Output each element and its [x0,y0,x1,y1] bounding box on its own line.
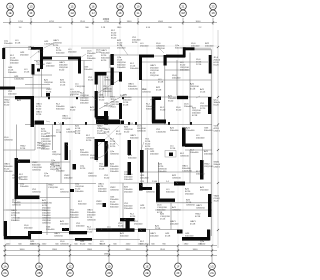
annotation label [46,89,52,94]
grid centerline bottom col 6 [177,47,179,246]
svg-text:C8@150: C8@150 [32,170,41,172]
annotation label [130,214,136,221]
svg-text:200x600: 200x600 [180,70,189,72]
svg-text:3C20: 3C20 [104,178,110,180]
shear wall bottom B6 [69,231,87,234]
annotation label [156,43,165,50]
stair wall S2 [95,72,98,85]
annotation label [80,150,89,157]
svg-text:4C18: 4C18 [156,90,162,92]
top grid tick col 7 [182,18,184,25]
wall line [0,87,50,89]
svg-text:6C20: 6C20 [70,110,76,112]
svg-text:300x500: 300x500 [128,158,137,160]
annotation label [214,126,223,133]
annotation label [19,174,28,181]
annotation label [56,130,62,135]
top grid tick col 4 [92,18,94,25]
svg-text:C10@200: C10@200 [128,89,139,91]
annotation label [196,171,205,176]
svg-text:1C: 1C [68,264,71,268]
top grid bubble col 2 [28,3,35,16]
wall line [96,148,98,162]
annotation label [118,223,124,228]
annotation label [116,131,122,136]
annotation label [70,210,79,220]
bottom grid bubble col 4 [106,263,113,276]
top dimension line [3,22,217,24]
annotation label [44,41,55,46]
annotation label [11,210,20,222]
column M19 [70,189,74,192]
svg-text:C8@150: C8@150 [196,208,205,210]
annotation label [104,175,110,180]
svg-text:6C20: 6C20 [124,132,130,134]
wall line [46,183,48,235]
small dimension text row [6,243,203,245]
top grid bubble col 8 [210,3,217,16]
shear wall left L1 [2,48,5,59]
svg-text:200x600: 200x600 [84,69,93,71]
column M10 [169,153,173,157]
stair wall S7 [95,139,99,160]
shear wall right R1 [209,55,212,74]
stair wall S1 [95,72,107,76]
wall line [164,66,166,125]
svg-text:C10@200: C10@200 [30,244,41,246]
elevator shaft cross [98,126,119,146]
annotation label [46,227,55,232]
svg-text:200x400: 200x400 [130,68,139,70]
wall line [41,69,43,97]
annotation label [90,155,99,160]
wall line [40,197,70,199]
shear wall M7 [140,150,144,173]
shear wall top A1-h [31,47,42,50]
shear wall M9 [185,144,203,147]
annotation label [66,129,77,134]
annotation label [78,201,87,206]
extension line [3,45,217,47]
svg-text:C8@100: C8@100 [12,205,21,207]
svg-text:3C20: 3C20 [59,70,65,72]
svg-text:C8@100: C8@100 [80,155,89,157]
wall line [149,230,151,246]
wall line [42,232,74,234]
wall line [95,84,97,91]
svg-text:C8@150: C8@150 [96,204,105,206]
annotation label [124,187,133,194]
svg-text:300x500: 300x500 [130,138,139,140]
wall line [34,125,36,151]
svg-text:6C20: 6C20 [116,134,122,136]
annotation label [120,232,129,238]
svg-text:C10@200: C10@200 [66,132,77,134]
annotation label [110,164,119,174]
annotation label [104,129,110,134]
svg-text:C8@150: C8@150 [52,154,61,156]
shear wall right R3 [200,160,204,180]
wall line [110,182,211,184]
annotation label [204,164,213,169]
annotation label [184,104,193,109]
annotation label [204,150,213,156]
svg-text:28800: 28800 [104,254,111,256]
shear wall left L2 [0,87,15,90]
wall line [52,125,54,151]
svg-text:2D: 2D [107,271,110,275]
shear wall L3 [32,64,35,75]
annotation label [42,199,53,225]
svg-text:C8@100: C8@100 [172,178,181,180]
svg-text:300x500: 300x500 [204,130,213,132]
svg-text:4C18: 4C18 [190,89,196,91]
grid centerline bottom col 3 [69,47,71,246]
shear wall bottom B8-v [126,218,130,231]
svg-text:200x400: 200x400 [140,244,149,246]
wall line [158,162,160,183]
annotation label [150,151,159,156]
svg-text:300x500: 300x500 [175,48,184,50]
annotation label [46,133,57,138]
svg-text:3C20: 3C20 [96,52,102,54]
annotation label [200,103,209,110]
wall line [141,172,143,183]
svg-text:200x600: 200x600 [46,66,55,68]
wall line [4,149,36,151]
stair flight diagonal 1 [98,80,119,93]
shear wall bottom B9 [138,229,146,232]
grid centerline bottom col 7 [211,47,213,246]
annotation label [60,189,69,194]
annotation label [196,205,205,210]
top grid tick col 3 [71,18,73,25]
svg-text:C8@150: C8@150 [4,140,13,142]
annotation label [24,225,33,230]
annotation label [87,51,96,61]
svg-text:1F: 1F [176,264,179,268]
annotation label [176,107,182,112]
wall line [142,79,211,81]
svg-text:1B: 1B [37,264,40,268]
annotation label [200,186,209,192]
annotation label [130,135,139,140]
svg-text:2C16: 2C16 [56,132,62,134]
svg-text:C10@200: C10@200 [75,86,86,88]
shear wall C7 [35,121,45,125]
annotation label [28,47,37,52]
annotation label [170,146,176,151]
svg-text:C8@100: C8@100 [44,82,53,84]
corridor wall L4-h [15,96,34,99]
annotation label [10,55,19,65]
wall line [134,229,177,231]
shear wall bottom B4 [28,231,42,234]
svg-text:300x500: 300x500 [185,236,194,238]
annotation label [60,80,66,87]
shear wall M6 [104,141,108,167]
annotation label [76,223,85,228]
svg-text:200x400: 200x400 [196,174,205,176]
svg-text:3100: 3100 [160,249,166,251]
shear wall bottom B10 [177,230,183,234]
shear wall top A5 [166,55,185,58]
svg-text:3C20: 3C20 [160,110,166,112]
svg-text:1M: 1M [181,11,185,15]
svg-text:250x600: 250x600 [185,194,194,196]
top grid bubble col 6 [135,3,142,16]
annotation label [132,37,141,44]
svg-text:C8@150: C8@150 [110,154,119,156]
svg-text:2C16: 2C16 [104,132,110,134]
svg-text:200x400: 200x400 [110,171,119,173]
annotation label [36,62,45,67]
svg-text:2C16: 2C16 [20,148,26,150]
svg-text:6C20: 6C20 [36,109,42,111]
annotation label [104,103,113,108]
shear wall bottom B8-cap [120,218,135,221]
shear wall bottom B11 [182,237,209,241]
svg-text:200x400: 200x400 [80,103,89,105]
shear wall top A5b [183,47,195,50]
wall line [16,125,18,159]
wall line [32,74,34,96]
shear wall C3 [177,96,188,99]
grid centerline top col 7 [182,25,184,246]
svg-text:2C16: 2C16 [140,208,146,210]
wall line [141,80,143,150]
svg-text:4C18: 4C18 [158,82,164,84]
svg-text:200x400: 200x400 [158,171,167,173]
svg-text:1E: 1E [145,264,148,268]
svg-text:4700: 4700 [49,21,55,23]
wall line [185,149,212,151]
stair flight diagonal 2 [99,94,126,109]
bottom grid bubble col 7 [209,263,216,276]
annotation label [70,107,76,112]
svg-text:3C20: 3C20 [86,140,92,142]
svg-text:250x600: 250x600 [124,192,133,194]
svg-text:2E: 2E [145,271,148,275]
svg-text:2100: 2100 [80,21,86,23]
annotation label [128,154,137,160]
svg-text:C8@150: C8@150 [110,190,119,192]
svg-text:C8@100: C8@100 [180,156,189,158]
top grid tick col 8 [212,18,214,25]
svg-text:C8@150: C8@150 [172,210,181,212]
svg-text:300x500: 300x500 [56,109,65,111]
shear wall top A4-v [139,55,142,81]
svg-text:1H: 1H [70,11,73,15]
annotation label [75,126,81,136]
svg-text:3400: 3400 [193,249,199,251]
svg-text:C8@100: C8@100 [214,131,221,133]
svg-text:C10@200: C10@200 [156,132,167,134]
annotation label [214,196,225,203]
wall line [34,60,92,62]
wall line [189,150,191,183]
svg-text:3C20: 3C20 [80,168,86,170]
annotation label [170,221,179,226]
annotation label [172,75,181,80]
svg-text:250x600: 250x600 [68,52,77,54]
bottom dimension line 2 [3,250,217,252]
annotation label [192,108,201,118]
annotation label [157,205,168,215]
annotation label [134,221,143,226]
annotation label [50,164,59,171]
shear wall C6 [152,120,166,124]
annotation label [56,166,65,173]
svg-text:C8@100: C8@100 [60,244,69,246]
svg-text:2C16: 2C16 [160,219,166,221]
svg-text:2F: 2F [176,271,179,275]
svg-text:3000: 3000 [196,21,202,23]
annotation label [98,184,107,194]
annotation label [140,43,149,48]
annotation label [190,83,199,91]
annotation label [99,164,108,171]
annotation label [54,233,63,238]
svg-text:300x500: 300x500 [103,91,112,93]
wall line [195,49,212,51]
annotation label [8,67,17,74]
annotation label [204,128,213,133]
svg-text:2C16: 2C16 [107,229,113,231]
annotation label [8,91,17,96]
svg-text:C8@150: C8@150 [146,192,155,194]
wall line [142,61,208,63]
annotation label [99,95,105,102]
svg-text:300x500: 300x500 [166,192,175,194]
svg-text:4C18: 4C18 [195,216,201,218]
annotation label [166,189,175,194]
svg-text:C10@200: C10@200 [46,136,57,138]
svg-text:2C16: 2C16 [196,64,202,66]
annotation label [44,173,50,178]
annotation label [110,151,119,156]
svg-text:300x500: 300x500 [11,220,20,222]
shear wall right R5 [207,230,210,241]
wall line [189,53,191,125]
second top dimension row [19,27,203,29]
annotation label [156,129,167,134]
annotation label [111,97,120,109]
svg-text:200x600: 200x600 [190,152,199,154]
svg-text:2C16: 2C16 [155,228,161,230]
wall line [165,69,190,71]
top grid bubble col 4 [90,3,97,16]
svg-text:6C20: 6C20 [176,110,182,112]
bottom grid tick col 6 [177,246,179,264]
svg-text:200x600: 200x600 [196,138,205,140]
svg-text:200x400: 200x400 [4,171,13,173]
wall line [17,161,71,163]
annotation label [20,52,29,57]
shear wall M12 [156,199,175,202]
annotation label [140,241,149,246]
annotation label [140,205,146,210]
svg-text:3C20: 3C20 [132,42,138,44]
shear wall M15 [174,182,185,186]
stair wall S7 cap [95,139,106,142]
svg-text:200x400: 200x400 [37,148,46,150]
column M16 [103,203,107,207]
svg-text:200x400: 200x400 [170,224,179,226]
svg-text:6C20: 6C20 [87,232,93,234]
annotation label [124,203,133,210]
annotation label [111,30,117,40]
top grid bubble col 3 [69,3,76,16]
annotation label [130,63,139,70]
svg-text:1D: 1D [107,264,110,268]
bottom grid bubble col 1 [2,263,9,276]
wall line [16,183,96,185]
wall line [14,202,47,204]
leader lines [6,44,204,234]
annotation label [52,152,61,157]
annotation label [158,164,167,174]
annotation label [36,104,42,111]
bottom grid bubble col 6 [175,263,182,276]
annotation label [180,62,189,72]
annotation label [48,185,59,190]
bottom grid tick col 4 [108,246,110,264]
top grid bubble col 1 [7,3,14,16]
svg-text:4C18: 4C18 [15,43,21,45]
annotation label [146,104,155,111]
svg-text:250x600: 250x600 [124,208,133,210]
svg-text:3600: 3600 [20,249,26,251]
svg-text:C8@150: C8@150 [42,223,51,225]
svg-text:200x600: 200x600 [191,46,200,48]
top grid tick col 2 [30,18,32,25]
svg-text:C8@150: C8@150 [12,178,21,180]
annotation label [110,139,116,149]
annotation label [4,164,13,174]
wall line [30,239,140,241]
corridor wall L4-v [31,96,35,127]
annotation label [46,63,55,68]
wall line [202,146,204,160]
shear wall top A1-v [40,47,43,69]
wall line [147,150,149,183]
svg-text:1700: 1700 [18,21,24,23]
svg-text:200x600: 200x600 [124,179,133,181]
stair landing S6 [96,116,109,119]
wall line [110,54,139,56]
annotation label [53,40,62,47]
shear wall M11 [156,183,160,202]
elevator wall E2 [96,120,120,125]
annotation label [14,76,25,81]
annotation label [32,189,41,194]
annotation label [20,184,29,189]
svg-text:200x600: 200x600 [10,63,19,65]
svg-text:2C16: 2C16 [46,92,52,94]
annotation label [64,175,73,180]
annotation label [12,175,21,180]
svg-text:C8@150: C8@150 [186,205,195,207]
shear wall M5 [73,164,77,170]
wall line [32,74,52,76]
annotation label [110,187,119,192]
wall line [176,60,178,96]
svg-text:6C20: 6C20 [80,244,86,246]
wall line [4,47,32,49]
svg-text:1800: 1800 [127,21,133,23]
svg-text:200x400: 200x400 [64,178,73,180]
